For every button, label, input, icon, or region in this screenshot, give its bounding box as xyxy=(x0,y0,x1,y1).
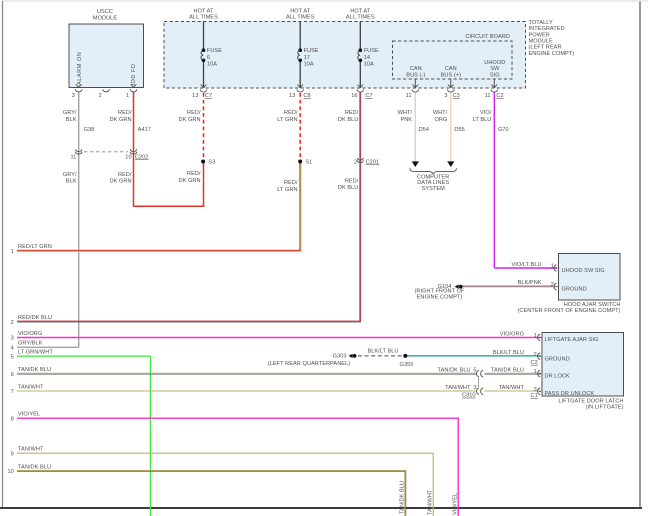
svg-text:TAN/WHT: TAN/WHT xyxy=(445,385,471,391)
svg-text:9: 9 xyxy=(11,451,14,457)
svg-text:LIFTGATE AJAR SIG: LIFTGATE AJAR SIG xyxy=(545,337,599,343)
svg-text:ALL TIMES: ALL TIMES xyxy=(189,14,218,20)
svg-text:(IN LIFTGATE): (IN LIFTGATE) xyxy=(586,404,624,410)
svg-text:LT GRN/WHT: LT GRN/WHT xyxy=(18,350,53,356)
svg-text:DR LOCK: DR LOCK xyxy=(545,374,570,380)
svg-text:10: 10 xyxy=(125,154,131,160)
svg-text:(LEFT REAR QUARTERPANEL): (LEFT REAR QUARTERPANEL) xyxy=(268,361,350,367)
svg-text:16: 16 xyxy=(351,93,357,99)
svg-text:RED/: RED/ xyxy=(345,110,359,116)
svg-text:FUSE: FUSE xyxy=(304,48,319,54)
svg-text:HOT AT: HOT AT xyxy=(290,8,311,14)
svg-text:SIG: SIG xyxy=(490,73,500,79)
svg-text:CIRCUIT BOARD: CIRCUIT BOARD xyxy=(465,34,510,40)
svg-text:3: 3 xyxy=(11,336,14,342)
svg-text:C3: C3 xyxy=(453,93,460,99)
svg-text:(CENTER FRONT OF ENGINE COMPT): (CENTER FRONT OF ENGINE COMPT) xyxy=(517,308,620,314)
svg-text:RED/: RED/ xyxy=(284,180,298,186)
svg-text:2: 2 xyxy=(354,159,357,165)
svg-text:TAN/WHT: TAN/WHT xyxy=(427,489,433,515)
svg-text:WHT/: WHT/ xyxy=(433,110,448,116)
svg-text:GRY/: GRY/ xyxy=(63,172,77,178)
svg-text:C1: C1 xyxy=(531,393,538,399)
svg-text:D55: D55 xyxy=(454,127,464,133)
svg-text:RED/: RED/ xyxy=(345,179,359,185)
svg-text:2: 2 xyxy=(534,352,537,358)
svg-text:IOD FD: IOD FD xyxy=(131,64,137,86)
svg-text:RED/LT GRN: RED/LT GRN xyxy=(18,244,52,250)
svg-text:G70: G70 xyxy=(498,127,509,133)
svg-text:10: 10 xyxy=(7,469,13,475)
svg-text:LT GRN: LT GRN xyxy=(277,117,297,123)
svg-text:TAN/WHT: TAN/WHT xyxy=(18,384,44,390)
svg-text:RED/: RED/ xyxy=(118,172,132,178)
svg-text:ENGINE COMPT): ENGINE COMPT) xyxy=(529,51,575,57)
svg-text:G38: G38 xyxy=(84,127,95,133)
svg-text:C310: C310 xyxy=(462,393,476,399)
svg-text:3: 3 xyxy=(473,385,476,391)
svg-text:PASS DR UNLOCK: PASS DR UNLOCK xyxy=(545,391,595,397)
svg-text:POWER: POWER xyxy=(529,32,550,38)
svg-text:DK BLU: DK BLU xyxy=(338,117,359,123)
svg-text:DK GRN: DK GRN xyxy=(110,179,132,185)
svg-text:VIO/ORG: VIO/ORG xyxy=(18,331,42,337)
svg-text:S1: S1 xyxy=(305,160,312,166)
svg-text:6: 6 xyxy=(11,372,14,378)
svg-text:TAN/WHT: TAN/WHT xyxy=(499,385,525,391)
svg-text:C7: C7 xyxy=(365,93,372,99)
svg-text:2: 2 xyxy=(551,282,554,288)
svg-text:SYSTEM: SYSTEM xyxy=(422,186,446,192)
svg-text:A417: A417 xyxy=(138,127,151,133)
svg-text:1: 1 xyxy=(534,333,537,339)
svg-text:RED/: RED/ xyxy=(118,110,132,116)
svg-text:ALL TIMES: ALL TIMES xyxy=(286,14,315,20)
svg-text:HOT AT: HOT AT xyxy=(350,8,371,14)
svg-text:TOTALLY: TOTALLY xyxy=(529,20,554,26)
svg-text:11: 11 xyxy=(70,154,76,160)
svg-text:UHOOD SW SIG: UHOOD SW SIG xyxy=(562,268,605,274)
svg-text:GRY/: GRY/ xyxy=(63,110,77,116)
svg-text:RED/: RED/ xyxy=(187,171,201,177)
svg-text:HOT AT: HOT AT xyxy=(194,8,215,14)
svg-text:D54: D54 xyxy=(419,127,429,133)
svg-text:MODULE: MODULE xyxy=(93,16,117,22)
svg-text:3: 3 xyxy=(534,387,537,393)
svg-text:PNK: PNK xyxy=(400,117,412,123)
svg-text:C202: C202 xyxy=(135,154,149,160)
svg-text:WHT/: WHT/ xyxy=(398,110,413,116)
svg-text:6: 6 xyxy=(207,55,210,61)
svg-text:TAN/WHT: TAN/WHT xyxy=(18,447,44,453)
svg-text:CAN: CAN xyxy=(445,66,457,72)
svg-text:C2: C2 xyxy=(496,93,503,99)
svg-text:14: 14 xyxy=(364,55,370,61)
svg-text:MODULE: MODULE xyxy=(529,39,553,45)
svg-text:C2: C2 xyxy=(531,360,538,366)
svg-text:3: 3 xyxy=(72,93,75,99)
svg-text:1: 1 xyxy=(534,369,537,375)
svg-text:1: 1 xyxy=(551,264,554,270)
svg-text:RED/: RED/ xyxy=(187,110,201,116)
svg-text:S3: S3 xyxy=(208,160,215,166)
svg-text:BLK/LT BLU: BLK/LT BLU xyxy=(367,349,398,355)
svg-text:USCC: USCC xyxy=(97,9,113,15)
svg-text:GROUND: GROUND xyxy=(562,286,587,292)
svg-text:BLK/LT BLU: BLK/LT BLU xyxy=(493,350,524,356)
svg-text:G303: G303 xyxy=(333,354,347,360)
svg-text:RED/DK BLU: RED/DK BLU xyxy=(18,315,52,321)
svg-text:GRY/BLK: GRY/BLK xyxy=(18,341,43,347)
svg-text:TAN/DK BLU: TAN/DK BLU xyxy=(438,367,471,373)
svg-text:BUS (+): BUS (+) xyxy=(441,72,461,78)
svg-text:VIO/YEL: VIO/YEL xyxy=(453,493,459,515)
svg-text:5: 5 xyxy=(11,354,14,360)
svg-text:VIO/YEL: VIO/YEL xyxy=(18,412,40,418)
svg-text:G355: G355 xyxy=(400,362,414,368)
svg-text:13: 13 xyxy=(192,93,198,99)
svg-text:BUS (-): BUS (-) xyxy=(406,72,425,78)
svg-text:1: 1 xyxy=(11,249,14,255)
svg-text:10A: 10A xyxy=(304,62,314,68)
svg-text:DK BLU: DK BLU xyxy=(338,185,359,191)
svg-text:UHOOD: UHOOD xyxy=(484,60,505,66)
svg-text:10A: 10A xyxy=(364,62,374,68)
svg-text:7: 7 xyxy=(11,389,14,395)
svg-text:2: 2 xyxy=(11,320,14,326)
svg-text:11: 11 xyxy=(406,93,412,99)
svg-text:4: 4 xyxy=(11,346,14,352)
svg-text:C7: C7 xyxy=(205,93,212,99)
svg-text:FUSE: FUSE xyxy=(364,48,379,54)
svg-text:2: 2 xyxy=(99,93,102,99)
svg-text:ORG: ORG xyxy=(434,117,447,123)
svg-text:1: 1 xyxy=(126,93,129,99)
svg-text:ENGINE COMPT): ENGINE COMPT) xyxy=(417,294,463,300)
svg-text:CAN: CAN xyxy=(410,66,422,72)
svg-text:17: 17 xyxy=(304,55,310,61)
svg-text:DK GRN: DK GRN xyxy=(110,117,132,123)
svg-text:ALL TIMES: ALL TIMES xyxy=(346,14,375,20)
svg-text:TAN/DK BLU: TAN/DK BLU xyxy=(18,464,51,470)
svg-text:VIO/ORG: VIO/ORG xyxy=(500,331,524,337)
svg-text:DK GRN: DK GRN xyxy=(179,117,201,123)
svg-text:LT BLU: LT BLU xyxy=(473,117,492,123)
svg-text:INTEGRATED: INTEGRATED xyxy=(529,26,565,32)
svg-text:LT GRN: LT GRN xyxy=(277,187,297,193)
svg-text:C201: C201 xyxy=(366,159,380,165)
svg-text:TAN/DK BLU: TAN/DK BLU xyxy=(399,481,405,514)
svg-text:11: 11 xyxy=(485,93,491,99)
svg-text:GROUND: GROUND xyxy=(545,356,570,362)
svg-text:TAN/DK BLU: TAN/DK BLU xyxy=(491,367,524,373)
svg-text:FUSE: FUSE xyxy=(207,48,222,54)
svg-text:TAN/DK BLU: TAN/DK BLU xyxy=(18,367,51,373)
svg-text:DK GRN: DK GRN xyxy=(179,178,201,184)
svg-text:10A: 10A xyxy=(207,62,217,68)
svg-text:(LEFT REAR: (LEFT REAR xyxy=(529,45,562,51)
svg-text:5: 5 xyxy=(473,368,476,374)
svg-text:BLK: BLK xyxy=(66,117,77,123)
svg-text:SW: SW xyxy=(490,66,500,72)
svg-text:C8: C8 xyxy=(303,93,310,99)
svg-text:13: 13 xyxy=(289,93,295,99)
svg-text:VIO/LT BLU: VIO/LT BLU xyxy=(511,262,541,268)
svg-text:3: 3 xyxy=(444,93,447,99)
svg-text:8: 8 xyxy=(11,416,14,422)
svg-text:ALARM ON: ALARM ON xyxy=(77,52,83,85)
svg-text:BLK/PNK: BLK/PNK xyxy=(518,280,542,286)
svg-text:RED/: RED/ xyxy=(284,110,298,116)
svg-text:VIO/: VIO/ xyxy=(480,110,492,116)
svg-text:BLK: BLK xyxy=(66,179,77,185)
